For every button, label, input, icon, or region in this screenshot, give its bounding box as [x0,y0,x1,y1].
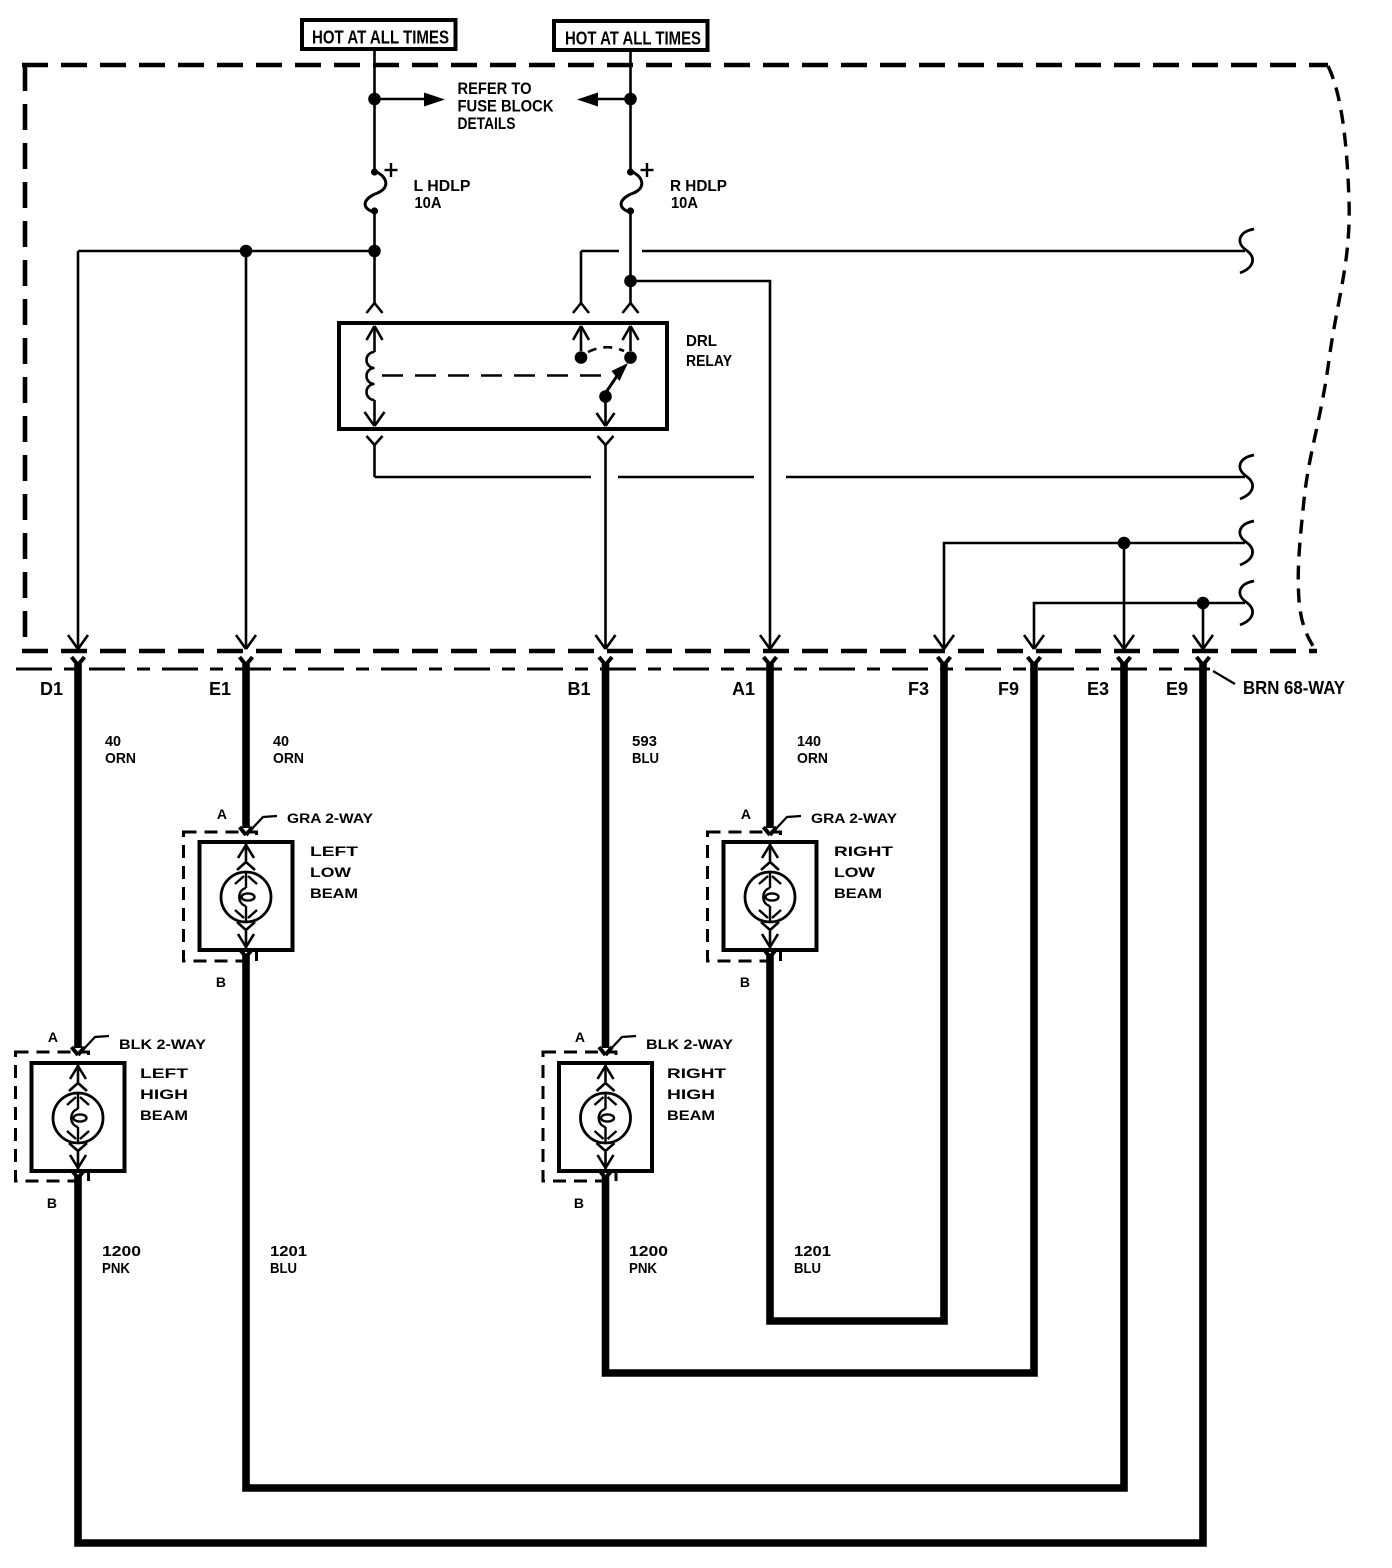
svg-text:LEFT: LEFT [140,1065,189,1081]
lamp LEFT HIGH BEAM [16,1029,207,1211]
fuse block dashed boundary (right wavy border) [1298,66,1349,651]
relay DRL box [339,323,667,429]
svg-text:40: 40 [273,733,289,750]
arrow to note (left) [375,93,446,107]
svg-text:E9: E9 [1166,679,1188,699]
svg-text:RELAY: RELAY [686,353,732,370]
fuse block dashed boundary (top border) [22,63,1328,68]
junction E3 branch [1118,537,1131,550]
svg-text:F3: F3 [908,679,929,699]
svg-text:10A: 10A [415,195,442,212]
relay coil [365,326,385,426]
wire relay switch output to B1 [596,436,616,649]
wire 40 ORN (E1 to left low beam) [240,664,305,835]
junction bus at E1 branch [240,245,253,258]
label BRN 68-WAY [1243,678,1345,698]
wire left battery feed [373,49,376,169]
connector BRN 68-WAY line [16,669,1235,684]
svg-text:PNK: PNK [629,1260,657,1277]
svg-text:140: 140 [797,733,821,750]
svg-text:BLU: BLU [270,1260,297,1277]
svg-text:BRN 68-WAY: BRN 68-WAY [1243,678,1345,698]
connector pin A1 [732,657,777,699]
svg-text:1200: 1200 [629,1243,668,1260]
relay fixed contact 87 [623,326,639,364]
fuse L HDLP 10A [365,163,471,215]
svg-text:B: B [47,1195,57,1211]
relay movable arm [597,363,629,426]
svg-text:10A: 10A [671,195,698,212]
wire F9 feed [1024,603,1245,649]
wire fused bus y=251 [78,250,375,253]
wire 593 BLU (B1 to right high beam) [599,664,659,1055]
svg-text:LOW: LOW [834,864,876,880]
svg-text:BLK 2-WAY: BLK 2-WAY [646,1037,733,1052]
fuse block dashed boundary (left border) [23,65,28,651]
arrow to note (right) [577,93,631,107]
wire E1 feed [236,251,256,649]
label DRL RELAY [686,333,732,370]
svg-text:BEAM: BEAM [310,885,358,901]
wire right battery feed [629,50,632,169]
svg-text:B: B [574,1195,584,1211]
lamp RIGHT HIGH BEAM [543,1029,733,1211]
svg-text:A1: A1 [732,679,755,699]
connector pin E3 [1087,657,1131,699]
svg-text:B: B [740,974,750,990]
wire 140 ORN (A1 to right low beam) [764,664,829,835]
wire long feed right (y=251) [581,250,1245,253]
connector pin F3 [908,657,951,699]
svg-text:REFER TO: REFER TO [458,79,532,98]
svg-text:40: 40 [105,733,121,750]
svg-text:GRA 2-WAY: GRA 2-WAY [287,811,373,826]
svg-text:GRA 2-WAY: GRA 2-WAY [811,811,897,826]
connector pin D1 [40,657,85,699]
junction right feed [624,93,637,106]
connector pin B1 [567,657,612,699]
junction bus at fuse [368,245,381,258]
wire E3 feed [1114,543,1134,649]
junction A1 branch [624,275,637,288]
fuse block dashed boundary (bottom border) [22,649,1317,654]
wire break symbol (y=251) [1240,229,1254,273]
svg-text:ORN: ORN [797,750,828,767]
junction E9 branch [1197,597,1210,610]
power source label HOT AT ALL TIMES (left) [302,20,456,49]
svg-text:HIGH: HIGH [140,1086,188,1102]
wire 40 ORN (D1 to left high beam) [72,664,137,1055]
svg-text:1200: 1200 [102,1243,141,1260]
lamp RIGHT LOW BEAM [708,806,898,990]
fuse R HDLP 10A [621,163,727,215]
svg-text:RIGHT: RIGHT [667,1065,727,1081]
svg-text:ORN: ORN [105,750,136,767]
wire D1 feed [68,251,88,649]
wire break symbol (y=543) [1240,521,1254,565]
relay fixed contact 30 [573,326,589,364]
svg-text:RIGHT: RIGHT [834,843,894,859]
wire break symbol (y=603) [1240,581,1254,625]
svg-text:FUSE BLOCK: FUSE BLOCK [458,97,555,116]
junction left feed [368,93,381,106]
relay mechanical link (dashed) [382,374,612,377]
svg-text:A: A [217,806,227,822]
wire E9 feed [1193,603,1213,649]
wire A1 feed [631,281,781,649]
power source label HOT AT ALL TIMES (right) [554,21,708,50]
relay contact dashed arc [588,347,624,352]
svg-text:BLU: BLU [632,750,659,767]
svg-text:BEAM: BEAM [667,1107,715,1123]
svg-text:D1: D1 [40,679,63,699]
svg-text:593: 593 [632,733,657,750]
wire 1200 PNK (right high beam B to F9) [599,662,1034,1373]
svg-text:1201: 1201 [270,1243,307,1260]
svg-text:A: A [48,1029,58,1045]
svg-text:R HDLP: R HDLP [670,178,727,195]
svg-text:BEAM: BEAM [834,885,882,901]
wire F3 feed [934,543,1245,649]
wire L fuse output [373,212,376,303]
svg-text:B: B [216,974,226,990]
svg-text:BLU: BLU [794,1260,821,1277]
wire switch feed (left contact) [573,251,589,313]
svg-text:1201: 1201 [794,1243,831,1260]
svg-text:ORN: ORN [273,750,304,767]
wire coil ground run (y=477) [375,476,1246,479]
svg-text:HOT AT ALL TIMES: HOT AT ALL TIMES [565,29,701,49]
wire 1201 BLU (left low beam B to E3) [240,662,1125,1488]
wire break symbol (y=477) [1240,455,1254,499]
wire R fuse output [623,212,639,313]
svg-text:E1: E1 [209,679,231,699]
wire 1200 PNK (left high beam B to E9) [72,662,1204,1543]
wire 1201 BLU (right low beam B to F3) [764,662,945,1321]
svg-text:BEAM: BEAM [140,1107,188,1123]
svg-text:L HDLP: L HDLP [414,178,471,195]
svg-text:F9: F9 [998,679,1019,699]
connector pin E9 [1166,657,1210,699]
svg-text:B1: B1 [567,679,590,699]
svg-text:DRL: DRL [686,333,717,350]
svg-text:LOW: LOW [310,864,352,880]
svg-text:BLK 2-WAY: BLK 2-WAY [119,1037,206,1052]
svg-text:DETAILS: DETAILS [458,114,516,133]
note REFER TO FUSE BLOCK DETAILS [458,79,555,133]
connector pin F9 [998,657,1041,699]
connector pin E1 [209,657,253,699]
svg-text:HIGH: HIGH [667,1086,715,1102]
svg-text:A: A [575,1029,585,1045]
svg-text:A: A [741,806,751,822]
svg-text:LEFT: LEFT [310,843,359,859]
wire relay coil output 85 [367,436,383,477]
svg-text:E3: E3 [1087,679,1109,699]
connector half relay pin 86 [367,303,383,313]
svg-text:HOT AT ALL TIMES: HOT AT ALL TIMES [312,28,449,48]
svg-text:PNK: PNK [102,1260,130,1277]
lamp LEFT LOW BEAM [184,806,374,990]
